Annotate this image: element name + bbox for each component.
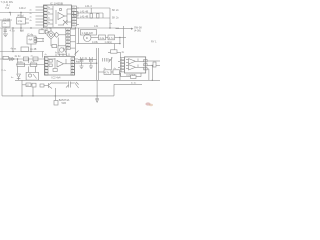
svg-text:4.7u: 4.7u [10,29,16,33]
svg-text:1 9u: 1 9u [18,20,23,23]
svg-text:4: 4 [121,68,122,70]
svg-text:4x8: 4x8 [20,30,25,33]
svg-text:SK 2x: SK 2x [112,8,120,12]
svg-text:4x 4x: 4x 4x [15,55,22,58]
svg-text:14: 14 [72,16,74,18]
svg-text:4: 4 [44,16,45,18]
svg-text:14.8k: 14.8k [92,41,99,44]
svg-text:14: 14 [67,45,69,47]
svg-text:14: 14 [72,19,74,21]
svg-text:4: 4 [121,59,122,61]
svg-text:14: 14 [72,22,74,24]
svg-text:14: 14 [67,29,69,31]
svg-text:4: 4 [45,62,46,64]
svg-text:4x: 4x [30,13,32,15]
svg-text:IC-4x: IC-4x [27,32,34,36]
svg-text:51B: 51B [62,102,67,105]
svg-text:14: 14 [72,13,74,15]
svg-text:140-2: 140-2 [19,6,26,10]
svg-text:14: 14 [67,32,69,34]
svg-text:4: 4 [72,62,73,64]
svg-text:4: 4 [72,74,73,76]
svg-text:IC3 4x4: IC3 4x4 [127,74,136,77]
svg-text:4: 4 [121,62,122,64]
svg-text:RY 1: RY 1 [151,41,157,44]
svg-text:14: 14 [67,48,69,50]
svg-text:4x: 4x [48,22,50,24]
svg-text:4x: 4x [45,54,47,56]
svg-text:4x-xx: 4x-xx [11,47,18,50]
svg-text:4x: 4x [48,12,50,14]
svg-text:SK 2x: SK 2x [112,16,120,20]
svg-text:L4x: L4x [94,24,99,28]
svg-text:14: 14 [72,10,74,12]
svg-text:L41-48: L41-48 [80,14,89,18]
svg-text:4: 4 [72,71,73,73]
svg-text:4: 4 [144,69,145,71]
svg-text:4: 4 [72,65,73,67]
svg-text:4: 4 [45,74,46,76]
svg-text:4x8: 4x8 [76,60,81,63]
svg-text:4: 4 [44,25,45,27]
svg-text:4: 4 [72,59,73,61]
svg-text:14: 14 [67,42,69,44]
svg-text:4x 4x: 4x 4x [131,83,137,85]
svg-text:IC2 4x4: IC2 4x4 [52,76,61,80]
svg-text:7x4: 7x4 [5,6,10,10]
svg-text:L41-4: L41-4 [85,4,92,8]
svg-text:4x: 4x [30,9,32,11]
svg-text:1.4k(x): 1.4k(x) [105,41,113,44]
svg-text:1 4x8 4x8: 1 4x8 4x8 [82,31,94,35]
svg-text:4: 4 [45,68,46,70]
svg-text:4x 4x: 4x 4x [55,52,60,54]
svg-text:14: 14 [67,38,69,40]
svg-text:4x4: 4x4 [29,39,34,42]
svg-text:4: 4 [121,65,122,67]
svg-text:(4-08): (4-08) [134,30,141,33]
svg-text:(40 g): (40 g) [17,14,24,18]
svg-text:4.4u: 4.4u [100,37,105,40]
svg-text:4: 4 [44,22,45,24]
svg-text:4x 48: 4x 48 [30,47,37,51]
svg-text:4: 4 [45,59,46,61]
svg-text:4: 4 [45,65,46,67]
svg-text:L41-48: L41-48 [80,9,89,13]
svg-text:4: 4 [72,68,73,70]
svg-text:100u: 100u [18,62,24,64]
svg-text:14: 14 [72,25,74,27]
svg-text:4x: 4x [30,17,32,19]
svg-text:4: 4 [44,7,45,9]
svg-text:4: 4 [45,71,46,73]
svg-text:4: 4 [44,19,45,21]
svg-text:4x: 4x [30,20,32,22]
svg-text:IC 1(4558): IC 1(4558) [50,2,63,6]
svg-text:14: 14 [72,7,74,9]
svg-text:4.7u: 4.7u [109,37,114,40]
svg-text:4: 4 [144,65,145,67]
svg-text:4: 4 [44,10,45,12]
svg-text:4x: 4x [48,7,50,9]
svg-text:4: 4 [144,61,145,63]
svg-text:4x: 4x [48,18,50,20]
svg-text:14: 14 [67,35,69,37]
svg-text:4: 4 [44,13,45,15]
svg-text:4: 4 [121,71,122,73]
